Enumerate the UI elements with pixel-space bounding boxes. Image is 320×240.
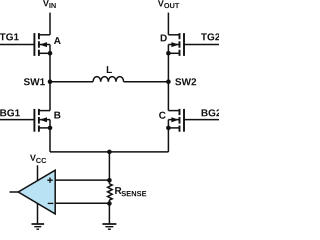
wire bottom rail — [50, 151, 168, 153]
label BG1 — [0, 109, 20, 116]
wire op-amp output — [10, 191, 19, 193]
wire rail to RSENSE — [108, 152, 110, 184]
ground (RSENSE) — [102, 224, 116, 229]
wire op-amp inverting input to sense bottom — [55, 202, 109, 204]
op-amp U1 — [18, 170, 55, 214]
wire BG1 source to bottom rail — [49, 128, 51, 152]
wire VCC to op-amp — [37, 165, 39, 180]
wire TG2 source to SW2 — [167, 53, 169, 81]
label TG2 — [201, 33, 220, 40]
node sense bottom — [107, 201, 112, 206]
label TG1 — [0, 33, 19, 40]
node SW2 — [166, 79, 171, 84]
wire RSENSE to ground — [108, 200, 110, 224]
wire op-amp to ground — [37, 204, 39, 224]
inductor L — [93, 77, 123, 82]
node SW1 — [48, 79, 53, 84]
net label VIN — [43, 0, 56, 8]
wire VOUT to TG2 drain — [167, 13, 169, 35]
wire inductor to SW2 — [124, 81, 169, 83]
node C — [159, 112, 166, 119]
ground (op-amp) — [32, 224, 45, 229]
net label VOUT — [158, 0, 179, 8]
node sense top — [107, 178, 112, 183]
label L — [107, 66, 112, 73]
node rail junction — [107, 150, 112, 155]
transistor BG2 — [166, 109, 219, 132]
label RSENSE — [115, 187, 146, 196]
label SW2 — [175, 78, 196, 85]
node A — [54, 37, 61, 44]
wire SW2 to BG2 drain — [167, 82, 169, 111]
node B — [54, 112, 60, 119]
transistor BG1 — [0, 109, 52, 132]
node D — [161, 35, 167, 42]
wire SW1 to BG1 drain — [49, 82, 51, 111]
label SW1 — [24, 78, 45, 85]
wire TG1 source to SW1 — [49, 53, 51, 81]
resistor RSENSE — [108, 184, 113, 200]
transistor TG1 — [0, 33, 52, 56]
label BG2 — [202, 109, 221, 116]
wire VIN to TG1 drain — [49, 13, 51, 35]
wire BG2 source to bottom rail — [167, 128, 169, 152]
wire SW1 to inductor — [50, 81, 93, 83]
transistor TG2 — [166, 33, 219, 56]
net label VCC — [30, 155, 46, 163]
wire op-amp noninverting input to sense top — [55, 179, 109, 181]
